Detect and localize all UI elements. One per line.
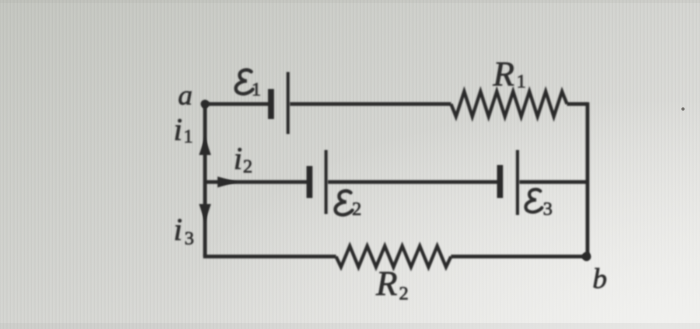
svg-text:i: i [174, 211, 183, 247]
dust speck [681, 107, 684, 110]
svg-text:i: i [234, 140, 243, 176]
wire: right vertical side [586, 102, 590, 257]
svg-text:3: 3 [185, 229, 195, 250]
arrow i1 (up) on left wire [199, 137, 211, 155]
svg-text:i: i [174, 111, 183, 147]
script E symbol for EMF source E2 [335, 191, 352, 215]
svg-text:1: 1 [184, 127, 194, 148]
resistor R2 [336, 246, 451, 267]
svg-text:R: R [375, 264, 397, 303]
node a junction dot [201, 100, 210, 109]
arrow i2 (right) on middle wire [218, 177, 238, 188]
battery E3 negative plate (short thick) [497, 165, 503, 198]
svg-text:2: 2 [243, 157, 253, 178]
battery E2 positive plate (tall thin) [324, 150, 327, 214]
svg-text:a: a [178, 80, 193, 112]
script E symbol for EMF source E1 [236, 70, 253, 94]
svg-text:b: b [593, 263, 608, 295]
svg-text:3: 3 [543, 199, 553, 220]
wire: top left segment a to battery E1 [205, 102, 269, 106]
wire: bottom left segment [203, 255, 336, 259]
wire: resistor R2 to node b [451, 255, 588, 259]
battery E1 positive plate (tall thin) [286, 72, 289, 134]
wire: battery E3 to right side [520, 180, 588, 184]
wire: battery E1 to resistor R1 [290, 102, 451, 106]
wire: between battery E2 and battery E3 [328, 180, 498, 184]
battery E3 positive plate (tall thin) [516, 150, 519, 215]
battery E2 negative plate (short thick) [307, 166, 313, 198]
battery E1 negative plate (short thick) [268, 89, 274, 119]
script E symbol for EMF source E3 [526, 189, 542, 212]
svg-text:1: 1 [517, 72, 527, 93]
wire: middle branch left with i2 [205, 180, 307, 184]
wire: left vertical side [203, 104, 207, 257]
arrow i3 (down) on left wire [199, 204, 211, 222]
resistor R1 [451, 92, 567, 117]
svg-text:R: R [492, 55, 514, 94]
svg-text:2: 2 [399, 284, 409, 305]
node b junction dot [582, 252, 591, 261]
wire: resistor R1 to top-right corner [567, 102, 588, 106]
